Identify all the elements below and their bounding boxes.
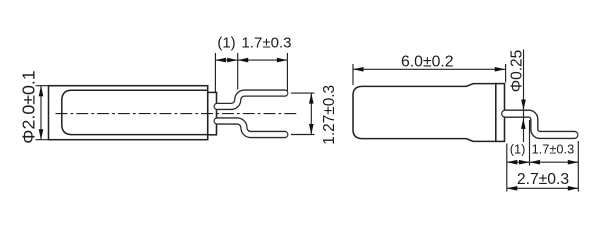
lead with Z-bend, right view — [505, 114, 574, 135]
arrows of (1) span, right view — [507, 160, 518, 165]
svg-text:1.27±0.3: 1.27±0.3 — [321, 85, 338, 145]
dimension 1.27 +/- 0.3 : extension ticks at lead tips — [291, 93, 315, 134]
svg-text:2.7±0.3: 2.7±0.3 — [517, 171, 570, 188]
step (crimp) at right of can, left view — [208, 92, 217, 134]
center axis line, left view — [56, 113, 298, 115]
1.27 vertical dimension line with arrows — [310, 93, 312, 134]
arrows of (1) span — [215, 58, 226, 63]
svg-text:(1): (1) — [510, 141, 526, 156]
svg-text:1.7±0.3: 1.7±0.3 — [242, 35, 292, 52]
bottom formed lead, left view — [217, 121, 285, 135]
dimension Phi 2.0 : vertical dimension line with arrows — [40, 86, 42, 140]
end cap, right view — [496, 84, 505, 142]
svg-text:Φ2.0±0.1: Φ2.0±0.1 — [18, 70, 38, 143]
top dimension line — [215, 59, 287, 61]
svg-text:Φ0.25: Φ0.25 — [509, 50, 526, 93]
dimension Phi 2.0 +/- 0.1 : extension ticks — [36, 86, 49, 140]
bottom dimensions: extension lines — [507, 120, 579, 192]
arrows of 1.7 span — [238, 58, 249, 63]
can body with crimp, right view — [353, 84, 496, 142]
dimension 6.0 +/- 0.2 : extension lines — [353, 64, 506, 85]
top dimension (1) 1.7+/-0.3 : extension lines — [215, 53, 287, 92]
dimension Phi 0.25 : vertical line and arrows — [523, 50, 525, 143]
inner rounded sleeve, left view — [62, 90, 208, 134]
svg-text:1.7±0.3: 1.7±0.3 — [532, 141, 575, 156]
2.7 dimension line — [507, 187, 579, 189]
svg-text:(1): (1) — [217, 35, 235, 52]
arrows of 1.7 span, right view — [530, 160, 541, 165]
top formed lead, left view — [217, 93, 285, 106]
6.0 dimension line — [353, 68, 505, 70]
svg-text:6.0±0.2: 6.0±0.2 — [401, 54, 454, 71]
can outer body, left view — [49, 86, 208, 140]
(1) / 1.7 dimension line — [507, 161, 579, 163]
